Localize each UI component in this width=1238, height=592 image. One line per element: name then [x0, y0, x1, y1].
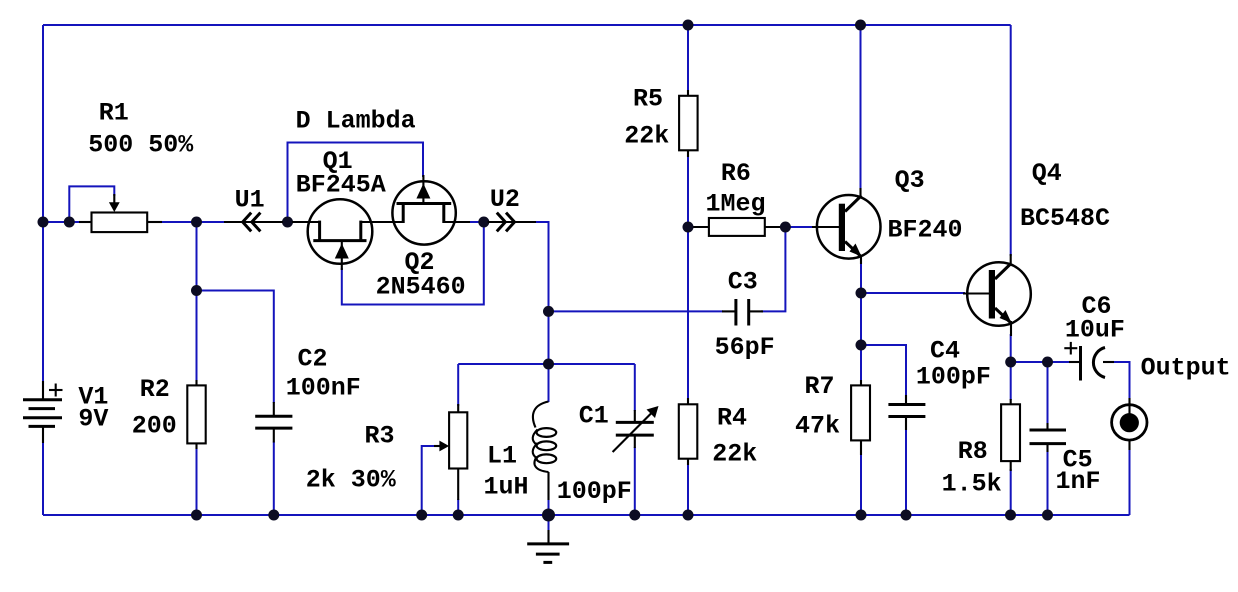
transistor Q1 (JFET BF245A) — [292, 199, 403, 270]
svg-text:22k: 22k — [624, 122, 669, 151]
svg-text:R4: R4 — [717, 404, 747, 433]
junction dot R1 wiper — [64, 217, 75, 228]
svg-text:C1: C1 — [579, 402, 609, 431]
junction dot Q4 emitter — [1005, 357, 1016, 368]
capacitor C4 — [888, 395, 925, 430]
wire Q3 emitter to Q4 base — [861, 292, 965, 294]
junction dot tank top — [543, 359, 554, 370]
wire Q4 emitter down — [1010, 334, 1012, 362]
junction dot C2 branch — [191, 285, 202, 296]
svg-text:C2: C2 — [298, 345, 328, 374]
svg-text:100pF: 100pF — [916, 363, 991, 392]
svg-text:U1: U1 — [235, 186, 265, 215]
junction dot R4 bottom — [683, 510, 694, 521]
output connector — [1112, 398, 1147, 450]
junction dot R6 right — [780, 222, 791, 233]
wire R2 column bottom — [196, 447, 198, 515]
svg-text:1nF: 1nF — [1056, 467, 1101, 496]
junction dot C5 bottom — [1042, 510, 1053, 521]
junction dot R8 bottom — [1005, 510, 1016, 521]
transistor Q4 (BC548C) — [963, 254, 1031, 336]
svg-text:47k: 47k — [795, 412, 840, 441]
junction dot R2 bottom — [191, 510, 202, 521]
wire R3 bottom — [457, 499, 459, 515]
svg-text:C3: C3 — [728, 268, 758, 297]
wire R7 top — [860, 345, 862, 381]
junction dot Q3 emitter / Q4 base — [856, 288, 867, 299]
junction dot tank C3 — [543, 306, 554, 317]
wire D lambda link — [288, 143, 424, 223]
wire R5 to R6 node — [687, 155, 689, 227]
port U1 — [224, 213, 283, 232]
wire R1 left — [43, 221, 79, 223]
wire Q3 emitter down — [860, 262, 862, 345]
wire R8 top — [1010, 362, 1012, 400]
svg-text:2k 30%: 2k 30% — [306, 466, 397, 495]
wire C1 bottom — [634, 447, 636, 515]
wire R4 bottom — [687, 464, 689, 515]
svg-text:Q4: Q4 — [1032, 159, 1062, 188]
battery V1 — [23, 381, 63, 443]
wire R2 column top — [196, 222, 198, 382]
wire R5 top — [687, 25, 689, 91]
capacitor C3 — [722, 299, 763, 326]
wire C5 top — [1047, 362, 1049, 424]
wire bottom rail — [43, 514, 1130, 516]
wire left edge bottom — [42, 442, 44, 515]
svg-text:R3: R3 — [365, 422, 395, 451]
wire R6 to Q3 base — [785, 226, 812, 228]
resistor R8 — [1001, 399, 1020, 471]
junction dot R3 wiper bottom — [416, 510, 427, 521]
ground — [527, 515, 569, 562]
capacitor C5 — [1030, 423, 1067, 452]
svg-text:R1: R1 — [99, 99, 129, 128]
capacitor C1 (variable) — [613, 406, 659, 452]
junction dot R6 left — [683, 222, 694, 233]
svg-text:9V: 9V — [78, 405, 108, 434]
wire R3 wiper — [422, 446, 435, 515]
svg-text:56pF: 56pF — [715, 333, 775, 362]
junction dot ground node — [542, 509, 555, 522]
capacitor C2 — [255, 402, 292, 443]
svg-text:1uH: 1uH — [484, 473, 529, 502]
resistor R6 — [690, 218, 783, 236]
junction dot R2 top — [191, 217, 202, 228]
junction dot Q1 gate node — [282, 217, 293, 228]
wire C3 left — [549, 310, 724, 312]
junction dot R5 top rail — [683, 20, 694, 31]
inductor L1 — [533, 402, 556, 501]
wire Q2 to U2 to tank — [468, 222, 549, 402]
junction dot Q3 collector top rail — [855, 20, 866, 31]
svg-text:R8: R8 — [958, 437, 988, 466]
wire R3 top — [457, 364, 459, 406]
junction dot C1 bottom — [629, 510, 640, 521]
svg-text:10uF: 10uF — [1065, 316, 1125, 345]
svg-text:BF245A: BF245A — [296, 171, 386, 200]
svg-text:C4: C4 — [930, 337, 960, 366]
svg-text:Q3: Q3 — [895, 166, 925, 195]
wire L1 bottom — [548, 500, 550, 515]
wire R4 top — [687, 227, 689, 399]
svg-text:BC548C: BC548C — [1020, 204, 1110, 233]
capacitor C6 (electrolytic) — [1064, 342, 1114, 381]
svg-text:U2: U2 — [490, 185, 520, 214]
svg-text:Output: Output — [1141, 354, 1231, 383]
wire R8 bottom — [1010, 469, 1012, 515]
wire Q4 collector — [1010, 25, 1012, 256]
svg-text:R5: R5 — [633, 85, 663, 114]
wire top rail — [43, 24, 1011, 26]
wire C2 bottom — [273, 442, 275, 515]
resistor R3 (potentiometer) — [434, 404, 467, 500]
svg-text:2N5460: 2N5460 — [376, 273, 466, 302]
wire output connector bottom — [1129, 444, 1131, 515]
junction dot left edge main rail — [38, 217, 49, 228]
wire R1 wiper — [69, 186, 114, 222]
wire C3 right — [761, 227, 785, 311]
svg-text:BF240: BF240 — [888, 216, 963, 245]
junction dot R7 bottom — [856, 510, 867, 521]
wire left edge top — [42, 25, 44, 381]
resistor R1 (potentiometer) — [79, 194, 162, 232]
wire C5 bottom — [1047, 450, 1049, 515]
svg-text:D Lambda: D Lambda — [296, 107, 416, 136]
wire C1 top — [634, 364, 636, 411]
port U2 — [488, 213, 537, 232]
wire tank top — [458, 363, 635, 365]
wire C2 branch — [197, 291, 274, 404]
resistor R5 — [679, 90, 698, 157]
svg-text:R2: R2 — [140, 375, 170, 404]
wire output row — [1011, 361, 1070, 363]
wire Q3 collector — [860, 25, 862, 189]
junction dot R3 bottom — [453, 510, 464, 521]
resistor R2 — [187, 380, 205, 449]
svg-text:100nF: 100nF — [286, 373, 361, 402]
resistor R7 — [851, 380, 870, 455]
junction dot C4 branch — [856, 340, 867, 351]
junction dot C5 top — [1042, 357, 1053, 368]
transistor Q2 (JFET 2N5460) — [392, 175, 470, 245]
svg-text:22k: 22k — [712, 440, 757, 469]
wire C4 bottom — [905, 427, 907, 515]
svg-text:100pF: 100pF — [557, 477, 632, 506]
junction dot C4 bottom — [901, 510, 912, 521]
transistor Q3 (BF240) — [812, 188, 881, 264]
svg-text:R7: R7 — [805, 372, 835, 401]
wire U1 to Q1 — [281, 221, 300, 223]
svg-text:1Meg: 1Meg — [706, 190, 766, 219]
wire C4 branch — [861, 345, 906, 396]
junction dot C2 bottom — [268, 510, 279, 521]
junction dot U2 node — [478, 217, 489, 228]
wire C6 to output connector — [1112, 362, 1130, 399]
resistor R4 — [679, 398, 698, 465]
svg-text:200: 200 — [132, 412, 177, 441]
svg-text:500 50%: 500 50% — [88, 131, 194, 160]
wire R1 to U1 — [160, 221, 230, 223]
svg-text:1.5k: 1.5k — [942, 470, 1002, 499]
svg-text:L1: L1 — [487, 442, 517, 471]
wire Q1 gate return — [342, 222, 484, 305]
svg-text:R6: R6 — [721, 159, 751, 188]
wire R7 bottom — [860, 452, 862, 515]
